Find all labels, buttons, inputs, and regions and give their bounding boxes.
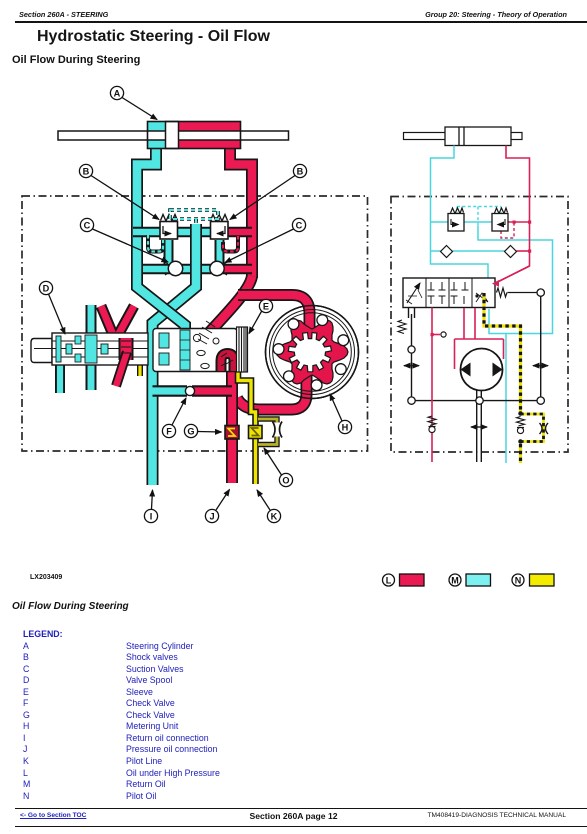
svg-text:I: I [150, 511, 153, 521]
sleeve E assembly [153, 321, 248, 372]
svg-text:H: H [342, 422, 349, 432]
svg-text:F: F [166, 426, 172, 436]
svg-text:N: N [515, 575, 522, 585]
node C callout left [80, 218, 168, 262]
gauge port node [441, 332, 446, 337]
cylinder symbol (right schematic) [404, 127, 523, 146]
wire: yellow pilot stub near spool [137, 347, 143, 376]
check valve on yellow pilot line [517, 412, 525, 443]
valve housing boundary (right schematic, dash-dot box) [391, 197, 568, 453]
footer center [0, 811, 587, 821]
wire: red diagonal into sleeve top [206, 276, 252, 336]
wire: red from node F to J line [192, 385, 232, 397]
second heading [12, 601, 129, 612]
wire: lower horizontal cyan (suction valve row) [133, 264, 216, 275]
svg-text:D: D [43, 283, 50, 293]
footer top rule [15, 808, 587, 810]
wire: left cyan crossing diagonally into sleeve top [137, 263, 185, 334]
wire: right shock valve stem [215, 240, 225, 264]
footer link [20, 812, 86, 819]
pilot line: dashed cyan band between shock valves [170, 210, 218, 226]
wire: red from cylinder to housing (right schematic) [493, 146, 530, 285]
footer bottom rule [15, 826, 587, 828]
node A callout [110, 86, 157, 119]
wire: red metering unit return loop to pressure line J [237, 372, 307, 410]
colour legend L (high pressure oil) [383, 574, 555, 586]
node O callout [264, 448, 293, 487]
bolt holes [273, 315, 348, 391]
hatch on red pipe end entering sleeve [198, 321, 215, 344]
pink flow arrow into valve [492, 266, 530, 287]
metering unit disc base [266, 306, 359, 399]
spring at valve right end [497, 288, 538, 297]
shock valve B1 (left) [160, 215, 178, 240]
wire: red pressure line J vertical [226, 368, 238, 483]
suction valve C2 (right circle) [210, 261, 227, 275]
svg-text:J: J [209, 511, 214, 521]
wire: center cyan pilot pipe crossing to lower-left, down to return I [153, 224, 197, 485]
steering cylinder A [58, 122, 289, 149]
black pump/tank rails (right schematic) [409, 293, 541, 462]
node D callout [39, 281, 65, 334]
wire: yellow pilot line (right schematic) [484, 293, 544, 463]
wire: cyan stub through valve spool [86, 305, 97, 390]
wire: upper cyan connector row through shock valves [133, 227, 212, 238]
node B callout right [230, 164, 307, 219]
metering motor circle (right schematic) [461, 349, 503, 391]
red port arch inside sleeve [221, 354, 234, 372]
pilot line: dashed red at right shock valve [501, 223, 514, 238]
svg-text:A: A [114, 88, 121, 98]
header left text [19, 10, 108, 19]
suction valve C1 (left circle) [165, 261, 183, 275]
svg-text:M: M [451, 575, 459, 585]
node G callout [184, 424, 221, 437]
colour legend N (pilot oil) [512, 574, 554, 586]
wire: cyan from cylinder to housing (right schematic) [431, 146, 553, 464]
wire: red supply pipe from cylinder right (outline) [230, 148, 252, 278]
svg-text:C: C [296, 220, 303, 230]
metering unit H (gerotor) [266, 306, 359, 399]
svg-text:E: E [263, 301, 269, 311]
wire: red pressure V stubs above spool [101, 306, 134, 337]
direction control valve (right schematic) [403, 278, 495, 308]
node J callout [205, 490, 229, 523]
shock valve B2 (right) [211, 215, 229, 240]
rail junction circles [408, 289, 545, 404]
svg-text:K: K [271, 511, 278, 521]
wire: pink pressure feed (right schematic) [432, 308, 504, 463]
wire: cyan supply pipe from cylinder left (outline) [137, 148, 156, 263]
check valve G (red box on pressure line) [225, 426, 239, 440]
section heading [12, 54, 140, 66]
check valve on pink return line [428, 416, 436, 433]
footer right [427, 812, 566, 819]
colour legend M (return oil) [449, 574, 491, 586]
sleeve end plate (striped) [237, 327, 248, 372]
wire: red connector from right shock valve to red pipe [226, 227, 252, 238]
svg-text:C: C [84, 220, 91, 230]
rotor (red) [276, 320, 348, 384]
node E callout [249, 299, 273, 333]
pilot line: dashed cyan above shock valves (right schematic) [457, 207, 501, 227]
shock valve symbol 1 (right schematic) [448, 208, 464, 231]
node C callout right [225, 218, 306, 262]
header right text [425, 10, 567, 19]
valve housing boundary (left diagram, dash-dot box) [22, 196, 368, 451]
node F callout [162, 398, 186, 438]
wire: yellow pilot line from sleeve to check valve O and down to K [238, 369, 256, 484]
wire: cyan stub below spool left [55, 362, 65, 393]
node I callout [144, 490, 157, 523]
inner gear star [288, 333, 331, 372]
header rule [15, 21, 587, 23]
pilot line: dashed cyan hook left valve [148, 235, 163, 252]
svg-text:G: G [187, 426, 194, 436]
svg-text:O: O [282, 475, 289, 485]
flow direction arrows (double head) [404, 366, 548, 427]
svg-text:L: L [386, 575, 392, 585]
restrictor on yellow bypass [540, 423, 549, 434]
wire: red channels right of spool [116, 338, 131, 386]
wire: yellow bypass loop with restrictor at O [258, 419, 282, 445]
node B callout left [79, 164, 159, 219]
check valve O (yellow box on pilot line) [249, 426, 263, 439]
wire: cyan bottom branch to check valve node F [153, 385, 188, 397]
legend block [23, 629, 220, 802]
callouts for left diagram [39, 86, 351, 522]
wire: left shock valve stem [164, 240, 174, 264]
page title [37, 28, 270, 46]
pilot line: dashed red hook right valve [223, 236, 238, 252]
node H callout [330, 394, 352, 434]
spring below valve left [398, 320, 406, 334]
figure id [30, 574, 62, 581]
junction dots (red) [431, 221, 532, 337]
check valve diamond left (right schematic) [441, 246, 453, 258]
check valve diamond right (right schematic) [505, 246, 517, 258]
svg-text:B: B [83, 166, 90, 176]
wire: red branch to metering unit top [238, 295, 310, 337]
shock valve symbol 2 (right schematic) [492, 208, 508, 231]
node K callout [257, 490, 281, 523]
wire: lower horizontal red segment [216, 264, 252, 275]
check valve node F (white circle junction) [185, 386, 194, 395]
valve spool D assembly [31, 333, 148, 365]
svg-text:B: B [297, 166, 304, 176]
